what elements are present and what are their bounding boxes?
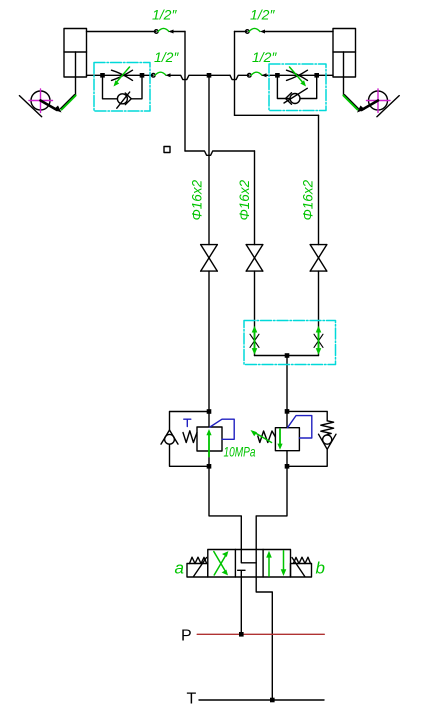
- shutoff valve V3 (bowtie): [310, 245, 327, 272]
- relief valve RV2 (right): [275, 428, 299, 467]
- throttle valve FC2: [287, 67, 308, 87]
- RV2 pilot line (blue): [288, 416, 312, 438]
- svg-text:1/2″: 1/2″: [152, 7, 177, 23]
- svg-text:a: a: [175, 559, 184, 578]
- brake wheel right: [357, 89, 399, 117]
- RV2 spring (adjustable): [251, 430, 276, 443]
- one-way throttle left (middle box): [250, 326, 259, 355]
- wire: lower manifold line y=75.3: [87, 75, 334, 79]
- check valve FC1 bypass: [103, 75, 143, 108]
- svg-text:1/2″: 1/2″: [252, 49, 277, 65]
- piston rod linkage right (green): [344, 95, 359, 110]
- wire: P port down to P rail: [240, 577, 242, 634]
- cylinder CYL1 (top-left brake cylinder): [64, 29, 87, 96]
- DV1 right position parallel arrows: [266, 551, 286, 576]
- flow-control enclosure FC2 (cyan): [269, 64, 326, 111]
- wire: RV1 to valve port A: [209, 466, 241, 549]
- hose H2: [152, 72, 171, 77]
- svg-text:1/2″: 1/2″: [250, 7, 275, 23]
- RV1 drain T (blue): [184, 419, 191, 426]
- wire: line2 bowtie into middle manifold: [254, 271, 256, 355]
- flow-control enclosure FC1 (cyan): [94, 63, 150, 112]
- shutoff valve V2 (bowtie): [246, 245, 263, 272]
- relief valve RV1 (left): [197, 427, 222, 466]
- brake wheel left: [19, 89, 61, 117]
- RV1 spring: [183, 431, 197, 443]
- wire: line1 down from manifold: [208, 75, 210, 244]
- hose H4: [248, 72, 267, 77]
- directional valve DV1 body: [208, 550, 291, 578]
- RV1 bypass check valve: [161, 412, 209, 467]
- T rail: [199, 699, 324, 701]
- svg-text:Φ16x2: Φ16x2: [301, 179, 316, 220]
- wire: y=151 run with jog over line1, to second pipe down-leg: [185, 151, 255, 245]
- wire: CYL2 top port run to third pipe down-leg: [235, 32, 334, 245]
- piston rod linkage left (green): [61, 95, 76, 110]
- cylinder CYL2 (top-right brake cylinder): [333, 29, 356, 96]
- throttle check enclosure (cyan, middle): [244, 321, 336, 365]
- throttle valve FC1: [112, 67, 133, 87]
- P rail (red): [197, 633, 324, 635]
- wire: RV2 to valve port B: [256, 466, 287, 549]
- shutoff valve V1 (bowtie): [201, 245, 218, 272]
- hose H1: [155, 28, 174, 33]
- one-way throttle right (middle box): [314, 326, 323, 355]
- svg-text:10MPa: 10MPa: [224, 444, 256, 460]
- svg-text:b: b: [316, 559, 325, 578]
- svg-text:1/2″: 1/2″: [154, 49, 179, 65]
- DV1 spring left: [187, 557, 208, 577]
- wire: CYL1 top port to down-leg: [87, 32, 186, 152]
- svg-text:Φ16x2: Φ16x2: [190, 179, 205, 220]
- RV2 bypass spring check valve: [287, 411, 336, 466]
- svg-text:P: P: [181, 628, 192, 645]
- wire: middle manifold join: [255, 356, 319, 428]
- RV1 pilot line (blue): [210, 419, 234, 439]
- DV1 centre position (A,B to T; P blocked): [238, 550, 257, 578]
- wire: line3 bowtie into middle manifold: [318, 271, 320, 355]
- hose H3: [246, 28, 266, 33]
- svg-text:T: T: [187, 691, 197, 705]
- DV1 left position crossed arrows: [214, 551, 229, 575]
- check valve FC2 bypass: [277, 75, 316, 104]
- wire: T port jog down to T rail: [256, 577, 272, 700]
- svg-text:Φ16x2: Φ16x2: [237, 179, 252, 220]
- DV1 spring right: [291, 557, 312, 577]
- wire: line1 bowtie to relief RV1: [208, 271, 210, 427]
- node marker square: [164, 147, 170, 153]
